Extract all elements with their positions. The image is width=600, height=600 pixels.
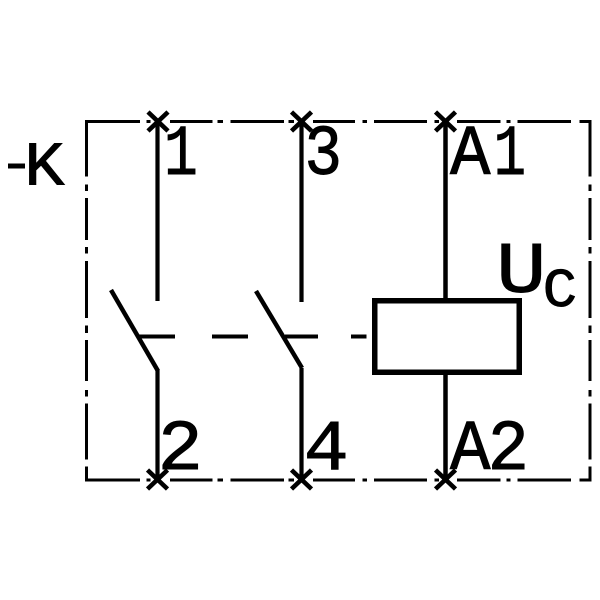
contact blade pole2 xyxy=(256,291,302,368)
terminal label 1 xyxy=(164,117,198,197)
svg-text:2: 2 xyxy=(488,411,529,491)
svg-text:1: 1 xyxy=(494,116,526,196)
phantom boundary box bottom (dash-dot) xyxy=(85,479,592,482)
mechanical linkage dash 1 xyxy=(139,335,175,339)
terminal label 3 xyxy=(305,116,343,197)
svg-text:K: K xyxy=(24,133,64,203)
mechanical linkage dash 3 xyxy=(285,335,318,339)
phantom boundary box top (dash-dot) xyxy=(85,120,592,123)
wire contact2 upper xyxy=(299,121,303,302)
terminal label A2 xyxy=(450,410,491,491)
svg-text:U: U xyxy=(496,232,547,314)
svg-text:1: 1 xyxy=(164,117,198,197)
wire coil lower A2 xyxy=(443,372,448,480)
svg-text:A: A xyxy=(450,115,491,196)
mechanical linkage dash 2 xyxy=(212,335,248,339)
wire coil upper A1 xyxy=(443,121,448,301)
phantom boundary box left (dash-dot) xyxy=(85,121,88,482)
terminal marker A1 xyxy=(436,112,456,131)
wire contact1 lower xyxy=(155,370,159,480)
svg-text:3: 3 xyxy=(305,116,343,197)
terminal marker A2 xyxy=(436,470,456,489)
wire contact1 upper xyxy=(155,121,159,301)
terminal marker 4 xyxy=(292,470,312,489)
svg-text:4: 4 xyxy=(304,410,349,491)
terminal marker 1 xyxy=(148,112,168,131)
label -K letter K xyxy=(24,133,64,203)
mechanical linkage dash 4 xyxy=(351,335,367,339)
terminal label 4 xyxy=(304,410,349,491)
svg-text:2: 2 xyxy=(158,411,203,491)
svg-text:A: A xyxy=(450,410,491,491)
coil voltage label U xyxy=(496,232,547,314)
wire contact2 lower xyxy=(299,368,303,480)
coil voltage label C subscript xyxy=(543,260,577,323)
coil K1 xyxy=(375,301,520,373)
svg-text:C: C xyxy=(543,260,577,323)
terminal label 2 xyxy=(158,411,203,491)
contact blade pole1 xyxy=(111,290,158,371)
terminal marker 2 xyxy=(148,470,168,489)
phantom boundary box right (dash-dot) xyxy=(589,121,592,482)
label -K hyphen xyxy=(8,164,25,169)
terminal label A1 xyxy=(450,115,491,196)
terminal marker 3 xyxy=(292,112,312,131)
